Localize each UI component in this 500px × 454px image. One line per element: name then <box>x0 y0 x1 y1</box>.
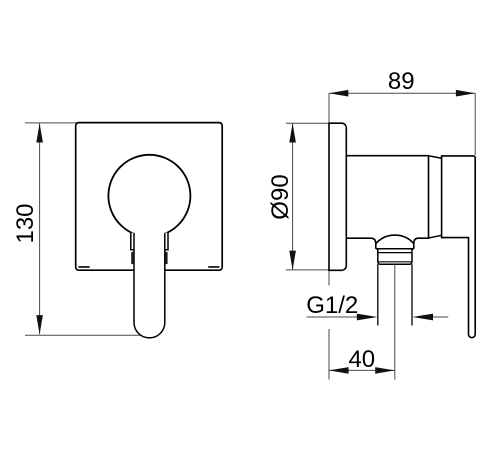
svg-text:130: 130 <box>12 203 39 243</box>
svg-text:89: 89 <box>388 68 415 95</box>
svg-text:G1/2: G1/2 <box>306 292 358 319</box>
svg-text:40: 40 <box>348 346 375 373</box>
svg-text:Ø90: Ø90 <box>267 174 294 219</box>
